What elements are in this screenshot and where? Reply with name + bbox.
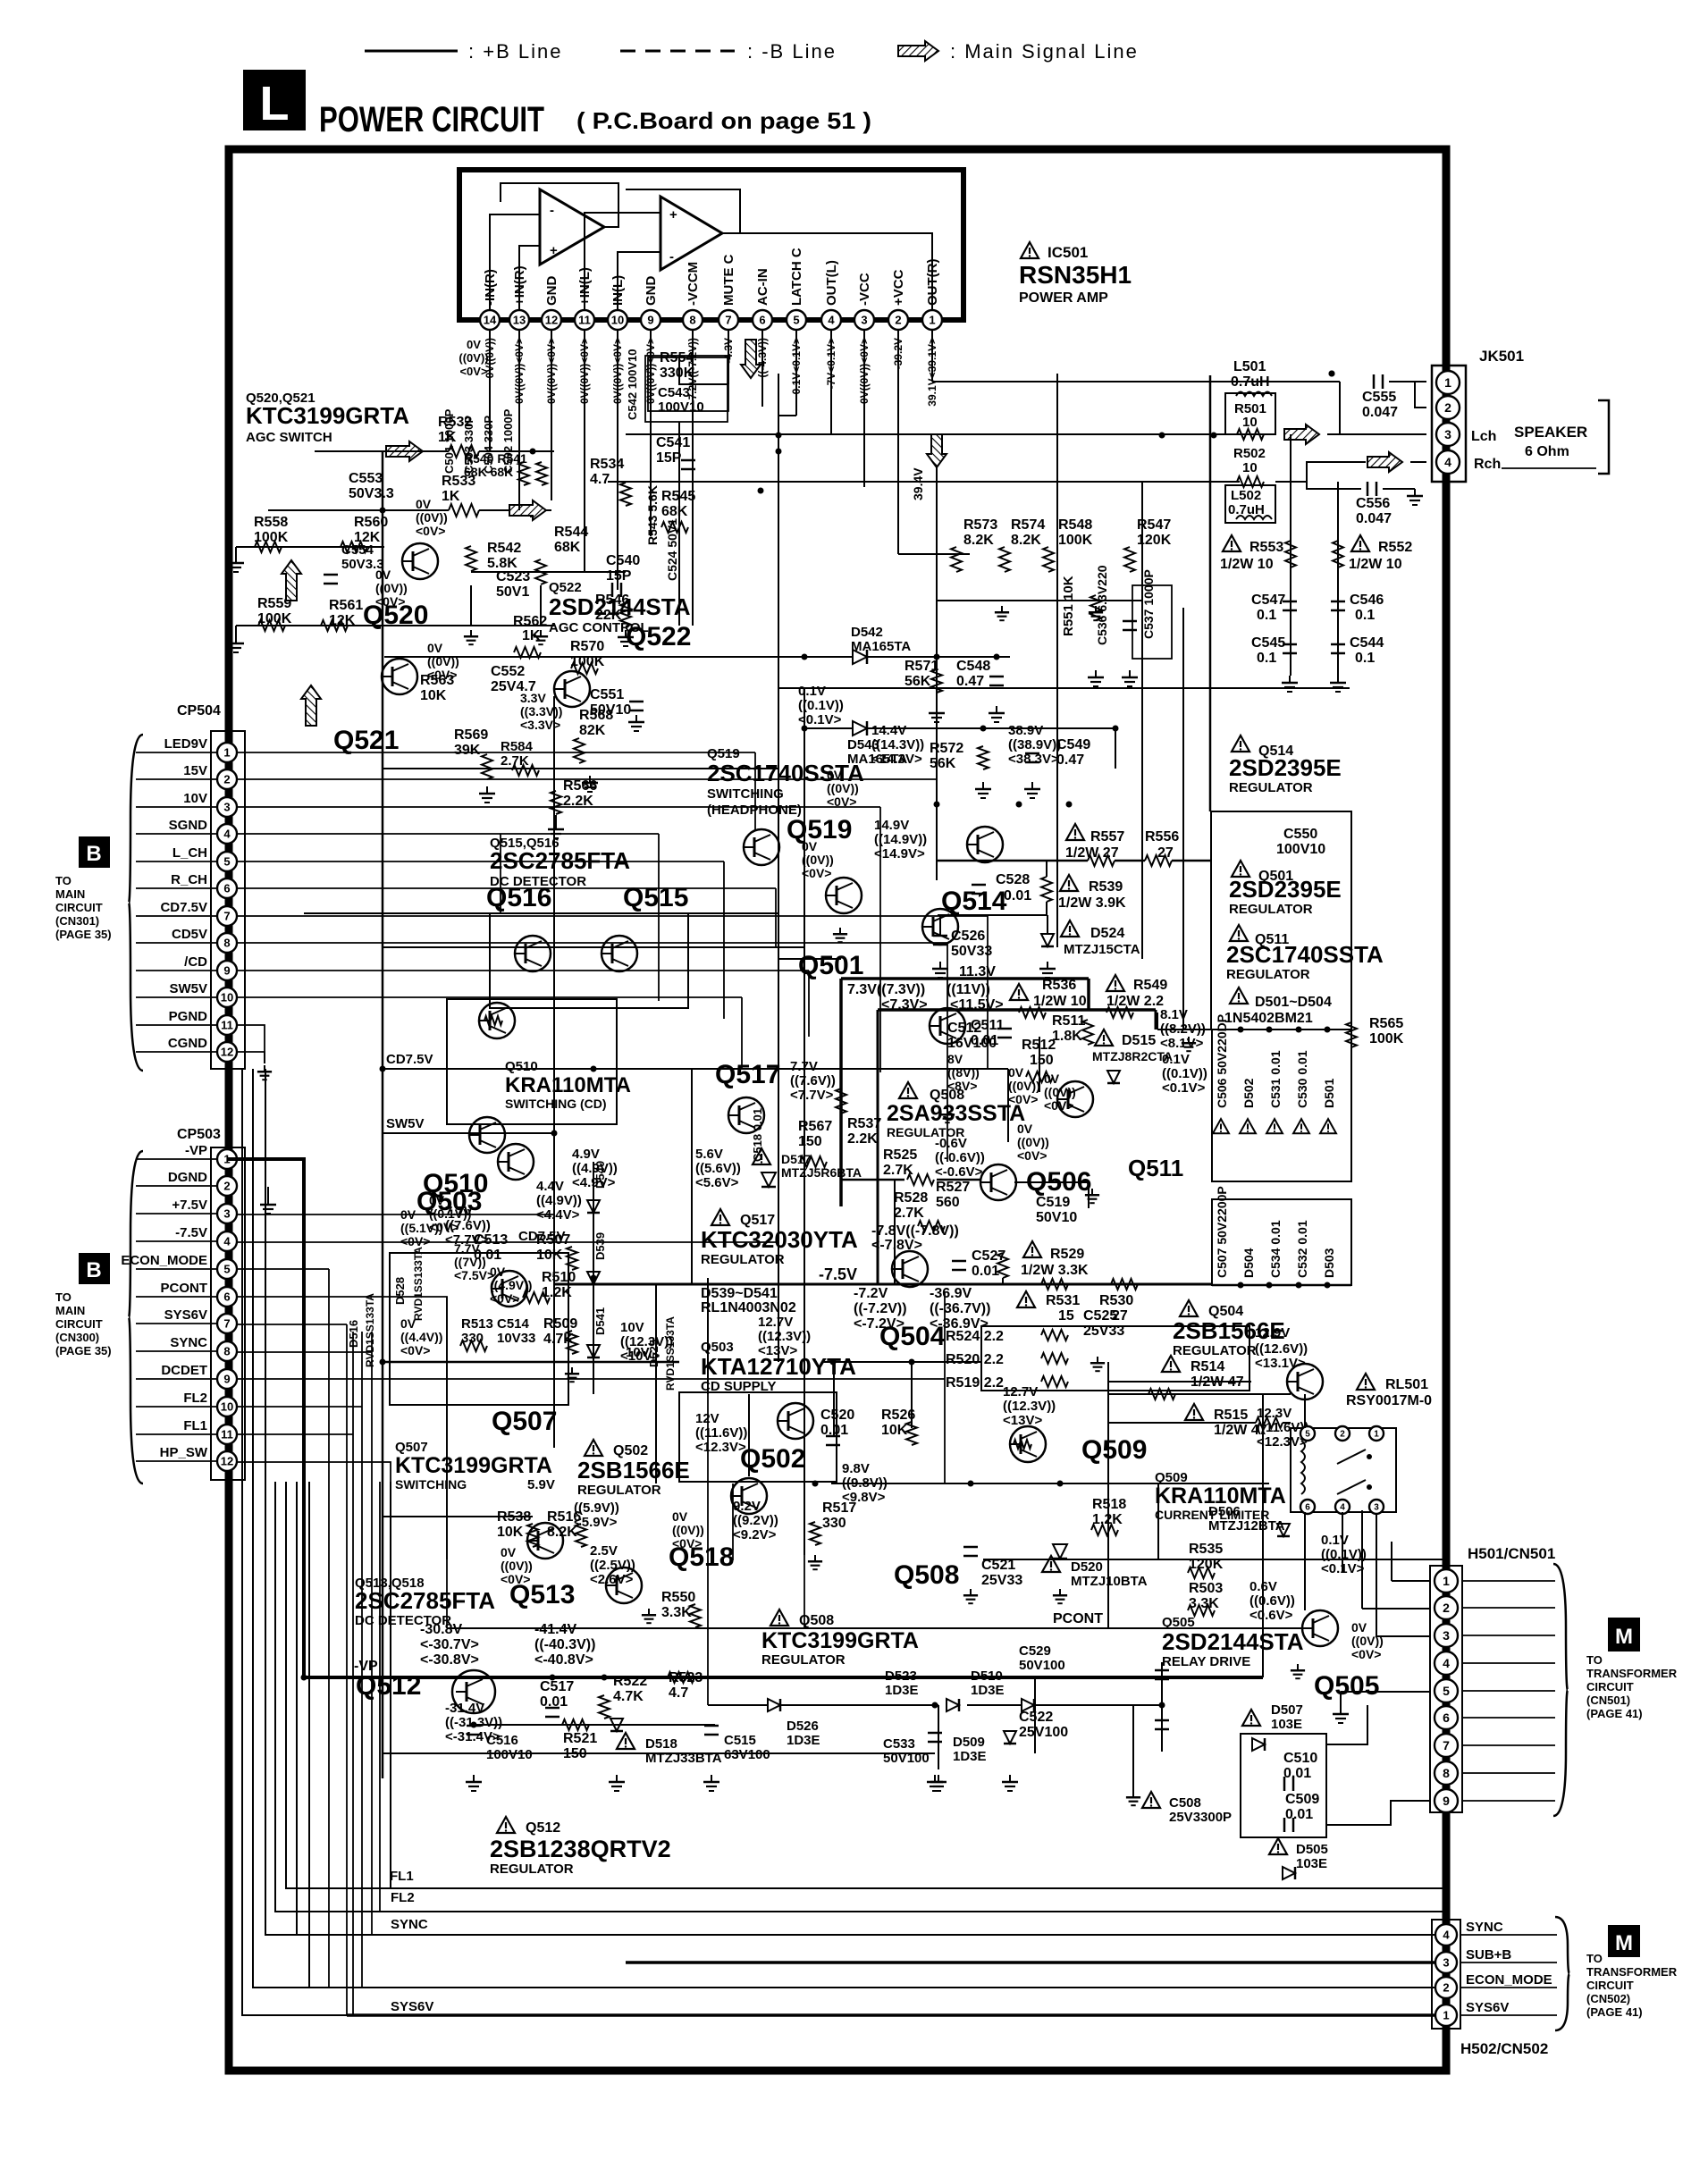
- IC501 pin 14 label: [483, 269, 498, 306]
- wire CP504 pin10 net: [238, 996, 742, 998]
- FL1 label: [390, 1869, 414, 1884]
- svg-text:R522: R522: [613, 1674, 647, 1689]
- svg-text:1: 1: [1443, 1574, 1450, 1588]
- wire bus v1324: [1182, 608, 1184, 1030]
- wire row b: [778, 687, 1350, 689]
- svg-text:B: B: [86, 842, 101, 866]
- wire row r: [1249, 1677, 1263, 1678]
- junction: [380, 1359, 386, 1366]
- svg-text:IN(L): IN(L): [610, 275, 626, 306]
- svg-text:KTC3199GRTA: KTC3199GRTA: [761, 1628, 919, 1653]
- wire v560 down: [500, 834, 501, 913]
- CP503 pin 4 label: [175, 1225, 207, 1240]
- wire 38.9 row: [937, 860, 1212, 862]
- svg-text:-7.5V: -7.5V: [175, 1225, 207, 1240]
- svg-text:3: 3: [861, 314, 867, 327]
- svg-text:4.9V: 4.9V: [572, 1147, 600, 1162]
- Q511 big label: [1128, 1155, 1183, 1181]
- CP503 pin 8 stub: [136, 1350, 217, 1352]
- svg-text:2SC2785FTA: 2SC2785FTA: [490, 847, 630, 874]
- svg-text:((0V)): ((0V)): [501, 1559, 533, 1573]
- capacitor C507 rot2: [1215, 1186, 1229, 1278]
- svg-text:<0V>: <0V>: [400, 1234, 430, 1248]
- svg-text:2: 2: [895, 314, 901, 327]
- resistor R522: [599, 1674, 647, 1719]
- wire CP504 pin12 net: [238, 1052, 265, 1063]
- svg-text:B: B: [86, 1258, 101, 1282]
- wire CP503 pin7 net: [238, 1351, 372, 1353]
- 7.7V note: [445, 1204, 491, 1248]
- CP503 pin 6 label: [161, 1281, 208, 1296]
- Q505 big label: [1314, 1671, 1379, 1701]
- capacitor C555: [1362, 374, 1398, 420]
- junction: [968, 1481, 974, 1487]
- svg-text:6 Ohm: 6 Ohm: [1525, 444, 1569, 459]
- wire v933 c520: [833, 1362, 835, 1435]
- svg-text:6: 6: [1305, 1503, 1310, 1513]
- wire y1877 right: [1263, 1677, 1302, 1678]
- svg-text:<0V>: <0V>: [672, 1536, 702, 1551]
- rect C550 block: [1211, 811, 1351, 1030]
- capacitor C525: [1083, 1308, 1124, 1339]
- svg-text:REGULATOR: REGULATOR: [1229, 902, 1313, 917]
- JK501 label: [1479, 348, 1524, 365]
- resistor R539: [938, 861, 1126, 915]
- wire stair 8: [390, 1482, 391, 1888]
- wire v774 kta: [691, 1069, 693, 1284]
- svg-text:CD5V: CD5V: [172, 927, 207, 942]
- svg-text:50V3.3: 50V3.3: [349, 486, 394, 501]
- junction: [380, 508, 386, 514]
- svg-text:C552: C552: [491, 664, 525, 679]
- svg-text:3: 3: [1443, 1628, 1450, 1643]
- ground D524: [1039, 962, 1056, 978]
- 0V note Q505: [1351, 1620, 1384, 1661]
- wire CP503 pin10 net: [238, 1433, 353, 1435]
- wire mute block: [645, 356, 728, 422]
- junction: [602, 1675, 608, 1681]
- transistor Q517: [728, 1097, 764, 1133]
- wire y1660 left: [749, 1483, 831, 1484]
- capacitor C516: [467, 1726, 533, 1762]
- 0.1V note Q519: [798, 684, 844, 727]
- svg-text:0.1V: 0.1V: [1162, 1052, 1190, 1067]
- svg-text:R513: R513: [461, 1316, 493, 1332]
- svg-text:0V: 0V: [802, 839, 818, 853]
- signal arrow down 1: [741, 340, 761, 378]
- svg-text:C510: C510: [1283, 1751, 1317, 1766]
- svg-text:2: 2: [1444, 400, 1451, 415]
- svg-text:(CN502): (CN502): [1586, 1992, 1630, 2005]
- ground Q501: [833, 928, 847, 942]
- svg-text:((0V)): ((0V)): [416, 510, 448, 525]
- svg-text:9.8V: 9.8V: [842, 1461, 870, 1476]
- capacitor C502: [501, 408, 515, 474]
- svg-text:SYNC: SYNC: [170, 1335, 207, 1350]
- resistor R561: [321, 598, 363, 631]
- Q513 big label: [509, 1580, 575, 1609]
- junction: [812, 1481, 819, 1487]
- Q506 big label: [1026, 1167, 1091, 1197]
- svg-text:R516: R516: [547, 1509, 581, 1525]
- svg-text:3: 3: [1374, 1503, 1379, 1513]
- svg-text:R549: R549: [1133, 978, 1167, 993]
- wire v1050b: [938, 1705, 939, 1769]
- svg-text:(CN301): (CN301): [55, 914, 99, 928]
- svg-text:D506: D506: [1208, 1504, 1241, 1519]
- svg-text:C506 50V220DP: C506 50V220DP: [1215, 1014, 1229, 1108]
- svg-text:R503: R503: [1189, 1581, 1223, 1596]
- resistor R512: [1022, 1038, 1056, 1082]
- svg-text:100V10: 100V10: [486, 1747, 533, 1762]
- svg-text:REGULATOR: REGULATOR: [577, 1483, 661, 1498]
- 0.1V note Q511: [1162, 1052, 1207, 1096]
- svg-text:0V: 0V: [400, 1316, 416, 1331]
- svg-text:C554: C554: [341, 542, 374, 558]
- wire row e: [383, 946, 804, 948]
- CP504 pin 9 stub: [136, 970, 217, 971]
- junction: [1211, 433, 1217, 439]
- H501 pin 8 wire: [1462, 1772, 1555, 1774]
- svg-text:0V: 0V: [1008, 1065, 1024, 1080]
- resistor R513: [460, 1316, 493, 1351]
- svg-text:R511: R511: [1052, 1013, 1085, 1029]
- svg-text:5.6V: 5.6V: [695, 1147, 723, 1162]
- wire y1822 left: [447, 1627, 804, 1629]
- 0V note Q506: [1008, 1065, 1049, 1163]
- svg-text:0V: 0V: [672, 1509, 688, 1524]
- svg-text:C542 100V10: C542 100V10: [626, 349, 639, 420]
- capacitor C513: [474, 1232, 508, 1263]
- CP504 pin 9 label: [184, 954, 207, 970]
- CP504 pin 5 label: [172, 845, 207, 861]
- diode D515: [1092, 1030, 1173, 1083]
- capacitor C551: [590, 687, 644, 718]
- svg-text:R535: R535: [1189, 1542, 1223, 1557]
- svg-text:<-7.8V>: <-7.8V>: [871, 1238, 922, 1253]
- svg-text:C514: C514: [497, 1316, 530, 1332]
- M box to transformer CN502: [1586, 1925, 1678, 2019]
- transistor Q510: [479, 1003, 515, 1038]
- svg-text:C520: C520: [820, 1408, 854, 1423]
- -30.8V note: [420, 1622, 479, 1668]
- svg-text:1/2W 3.9K: 1/2W 3.9K: [1058, 895, 1126, 911]
- svg-text:C521: C521: [981, 1558, 1015, 1573]
- svg-text:1: 1: [1443, 2009, 1449, 2022]
- wire stair 3: [265, 1069, 297, 1935]
- IC501 pin 12: [542, 310, 561, 330]
- svg-text:12.7V: 12.7V: [1003, 1384, 1038, 1399]
- IC501 pin 1 voltage note: [926, 338, 938, 407]
- CP504 pin 11 label: [169, 1009, 208, 1024]
- svg-text:330K: 330K: [660, 366, 694, 381]
- 14.4V note: [871, 723, 924, 767]
- svg-text:-0.6V: -0.6V: [935, 1136, 967, 1151]
- wire row g: [715, 1038, 778, 1039]
- wire -VP thick: [227, 1159, 1263, 1677]
- 12.7Vb note: [1003, 1384, 1056, 1428]
- wire v845 down: [754, 752, 756, 831]
- ground C545: [1282, 676, 1298, 692]
- wire CP504 pin3 net: [238, 806, 880, 808]
- svg-text:3: 3: [223, 1207, 230, 1221]
- junction: [1066, 802, 1073, 808]
- 0V note Q501: [802, 839, 834, 880]
- svg-text:5.9V: 5.9V: [527, 1477, 555, 1492]
- svg-text:15V: 15V: [183, 763, 207, 778]
- svg-text:+: +: [550, 243, 558, 258]
- resistor R514: [1148, 1356, 1244, 1399]
- warn D501: [1320, 1119, 1336, 1133]
- wire IC pin stub: [761, 330, 763, 407]
- transistor Q522: [554, 671, 590, 707]
- svg-text:8.2K: 8.2K: [547, 1525, 577, 1540]
- svg-text:56K: 56K: [930, 756, 956, 771]
- IC501 pin 8: [683, 310, 703, 330]
- svg-text:MA165TA: MA165TA: [851, 639, 911, 654]
- svg-text:C551: C551: [590, 687, 624, 702]
- svg-text:R565: R565: [1369, 1016, 1403, 1031]
- capacitor C529: [1019, 1643, 1169, 1679]
- svg-text:-30.8V: -30.8V: [420, 1622, 462, 1637]
- svg-text:Q511: Q511: [1128, 1155, 1183, 1181]
- H501 pin 8: [1435, 1761, 1458, 1785]
- wire bottom chain: [383, 1724, 474, 1726]
- diode D516 rot: [347, 1293, 376, 1367]
- svg-text:0.47: 0.47: [956, 674, 984, 689]
- wire SUB+B row: [626, 1961, 1435, 1964]
- svg-text:1/2W 3.3K: 1/2W 3.3K: [1021, 1263, 1089, 1278]
- Q508b name block: [761, 1609, 919, 1668]
- wire CP504 pin6 net: [238, 887, 776, 889]
- svg-text:0.1V: 0.1V: [1321, 1533, 1349, 1548]
- H501 pin 2 wire: [1462, 1607, 1555, 1609]
- diode D506: [1208, 1504, 1290, 1536]
- wire y1297 vp: [227, 1158, 304, 1160]
- wire v1105 down: [987, 916, 989, 1069]
- IC501 pin 10: [608, 310, 627, 330]
- wire v1020 r526: [911, 1362, 913, 1428]
- ground C551: [628, 715, 644, 731]
- junction bank: [1238, 1027, 1244, 1289]
- junction bank: [1266, 1027, 1273, 1289]
- svg-text:((4.9V)): ((4.9V)): [536, 1193, 582, 1208]
- CP503 pin 4 stub: [136, 1240, 217, 1242]
- ground C525: [1090, 1357, 1105, 1371]
- wire stair 6: [296, 1482, 298, 1935]
- svg-text:100V10: 100V10: [1276, 842, 1325, 857]
- diode D503 rot2: [1322, 1248, 1336, 1278]
- 11.3V note: [959, 964, 996, 979]
- D501~D504 name block: [1224, 988, 1332, 1026]
- svg-text:1: 1: [929, 314, 935, 327]
- wire C529 v: [1161, 1662, 1163, 1752]
- 4.4V note: [536, 1179, 582, 1223]
- svg-text:10K: 10K: [881, 1423, 908, 1438]
- capacitor C521: [963, 1547, 1022, 1588]
- svg-text:120K: 120K: [1137, 533, 1172, 548]
- svg-text:((-40.3V)): ((-40.3V)): [534, 1637, 595, 1652]
- wire x838 seg: [748, 1394, 750, 1476]
- svg-text:SWITCHING (CD): SWITCHING (CD): [505, 1097, 607, 1111]
- signal arrow row2: [509, 500, 546, 520]
- wire v905 down: [808, 971, 810, 1037]
- ground R546: [618, 630, 634, 646]
- svg-text:KTC3199GRTA: KTC3199GRTA: [246, 402, 409, 429]
- CP503 pin 7: [217, 1314, 237, 1333]
- svg-text:((0V)): ((0V)): [827, 781, 859, 795]
- signal arrow Lch: [1284, 424, 1319, 444]
- 4.9V note: [572, 1147, 618, 1190]
- CP503 pin 3: [217, 1204, 237, 1223]
- H502 pin 2: [1435, 1977, 1457, 1998]
- resistor R538: [497, 1509, 538, 1547]
- transistor Q512b: [930, 1008, 965, 1044]
- IC501 pin 7 label: [721, 254, 736, 306]
- transistor Q519: [826, 878, 862, 913]
- relay pin 6: [1300, 1500, 1315, 1514]
- svg-text:-7.8V((-7.8V)): -7.8V((-7.8V)): [871, 1223, 959, 1239]
- junction: [471, 1722, 477, 1728]
- H501 pin 4: [1435, 1652, 1458, 1675]
- svg-text:CP503: CP503: [177, 1127, 221, 1142]
- resistor R524: [946, 1329, 1068, 1344]
- svg-text:GND: GND: [544, 276, 560, 307]
- ground D509: [1002, 1775, 1018, 1791]
- CP503 pin 3 stub: [136, 1213, 217, 1214]
- SYNC label: [391, 1917, 428, 1932]
- CP504 pin 6: [217, 878, 237, 898]
- IC501 pin 6: [753, 310, 772, 330]
- wire bus v1183: [1056, 374, 1058, 947]
- wire grounds top: [464, 630, 548, 644]
- svg-text:C546: C546: [1350, 593, 1384, 608]
- svg-text:Q501: Q501: [798, 951, 863, 980]
- CP503 pin 10 label: [183, 1391, 207, 1406]
- svg-text:+VCC: +VCC: [891, 269, 906, 306]
- svg-text:Q515: Q515: [623, 883, 688, 912]
- junction: [1057, 1481, 1064, 1487]
- svg-text:HP_SW: HP_SW: [160, 1445, 208, 1460]
- svg-text:Q507: Q507: [492, 1407, 557, 1436]
- wire D507 wires: [938, 1705, 1367, 1744]
- op-amp U1a: [540, 189, 604, 265]
- svg-text:63V100: 63V100: [724, 1747, 770, 1762]
- CP504 brace: [129, 735, 143, 1071]
- svg-text:((8V)): ((8V)): [947, 1065, 980, 1080]
- svg-text:MUTE C: MUTE C: [721, 254, 736, 306]
- wire row i: [593, 1068, 1008, 1070]
- ground R558: [228, 547, 244, 572]
- svg-text:R527: R527: [936, 1180, 970, 1195]
- wire row d: [304, 912, 778, 914]
- svg-text:((0.1V)): ((0.1V)): [798, 698, 844, 713]
- Q509 name block: [1155, 1470, 1286, 1522]
- svg-text:Lch: Lch: [1471, 429, 1496, 444]
- svg-text:C543: C543: [658, 385, 690, 400]
- svg-text:RSY0017M-0: RSY0017M-0: [1346, 1393, 1432, 1408]
- wire CP504 pin5 net: [238, 861, 724, 862]
- svg-text:<-0.6V>: <-0.6V>: [935, 1164, 983, 1180]
- capacitor C520: [820, 1408, 854, 1445]
- svg-text:MTZJ5R6BTA: MTZJ5R6BTA: [781, 1165, 862, 1180]
- capacitor C542 rot: [626, 349, 639, 420]
- wire v734: [655, 1284, 657, 1483]
- wire row q: [304, 1361, 383, 1363]
- svg-text:<13V>: <13V>: [1003, 1413, 1042, 1428]
- wire C555 to pin1: [1389, 382, 1426, 408]
- Q519 big label: [787, 815, 852, 845]
- svg-text:4: 4: [828, 314, 835, 327]
- JK501 body: [1432, 366, 1466, 482]
- svg-text:L: L: [260, 77, 290, 130]
- wire C508 v: [1126, 1705, 1140, 1805]
- junction: [591, 1275, 597, 1282]
- wire bus v416: [371, 1332, 373, 1935]
- wire H501 pin3 left: [1376, 1510, 1430, 1636]
- transistor Q504: [892, 1251, 928, 1287]
- svg-text:D539: D539: [593, 1232, 607, 1260]
- resistor R559: [257, 596, 292, 631]
- capacitor C526: [933, 915, 992, 959]
- capacitor C524 rot: [665, 518, 679, 581]
- wire op-amp2 out: [626, 189, 740, 233]
- transistor Q513: [527, 1523, 563, 1559]
- svg-text:R547: R547: [1137, 517, 1171, 533]
- svg-text:C537 1000P: C537 1000P: [1141, 569, 1156, 639]
- relay pin 3: [1369, 1500, 1384, 1514]
- svg-text:0V: 0V: [490, 1265, 506, 1279]
- resistor R501: [1225, 393, 1275, 440]
- 5.9V note: [574, 1500, 619, 1530]
- CP504 pin 12: [217, 1042, 237, 1062]
- 12.7V note: [758, 1315, 811, 1358]
- H501 body: [1430, 1566, 1462, 1812]
- transistor Q520: [402, 543, 438, 579]
- CP503 pin 1 stub: [136, 1158, 217, 1160]
- svg-text:0.047: 0.047: [1356, 511, 1392, 526]
- svg-text:2.7K: 2.7K: [894, 1206, 924, 1221]
- resistor R556: [1145, 829, 1179, 866]
- CP504 pin 4 label: [169, 818, 208, 833]
- CP503 pin 9 label: [161, 1363, 207, 1378]
- svg-text:8: 8: [1443, 1766, 1450, 1780]
- 0V 5.1V note: [400, 1207, 442, 1248]
- wire C509 left: [1251, 1825, 1289, 1873]
- svg-text:((2.5V)): ((2.5V)): [590, 1558, 635, 1573]
- svg-text:SYNC: SYNC: [1466, 1920, 1503, 1935]
- svg-text:-: -: [550, 203, 554, 218]
- svg-text:AGC SWITCH: AGC SWITCH: [246, 430, 332, 445]
- capacitor C540: [606, 553, 640, 597]
- svg-text:C536 6.3V220: C536 6.3V220: [1095, 565, 1109, 645]
- svg-text:D510: D510: [971, 1668, 1003, 1684]
- svg-text:((-7.2V)): ((-7.2V)): [854, 1301, 907, 1316]
- 8.1V note: [1160, 1007, 1206, 1051]
- wire H501 pin5 left: [1341, 1692, 1430, 1707]
- wire kta row2: [593, 1069, 594, 1162]
- svg-text:MTZJ12BTA: MTZJ12BTA: [1208, 1518, 1285, 1534]
- svg-text:Q505: Q505: [1314, 1671, 1379, 1701]
- capacitor C530 rot: [1295, 1050, 1309, 1108]
- Q520,Q521 name block: [246, 391, 409, 445]
- resistor R517: [810, 1500, 856, 1545]
- CP503 pin 2: [217, 1176, 237, 1196]
- wire R559 row: [236, 625, 393, 626]
- svg-text:SWITCHING: SWITCHING: [395, 1477, 467, 1492]
- relay pin 1: [1369, 1426, 1384, 1441]
- svg-text:<0V>: <0V>: [416, 524, 445, 538]
